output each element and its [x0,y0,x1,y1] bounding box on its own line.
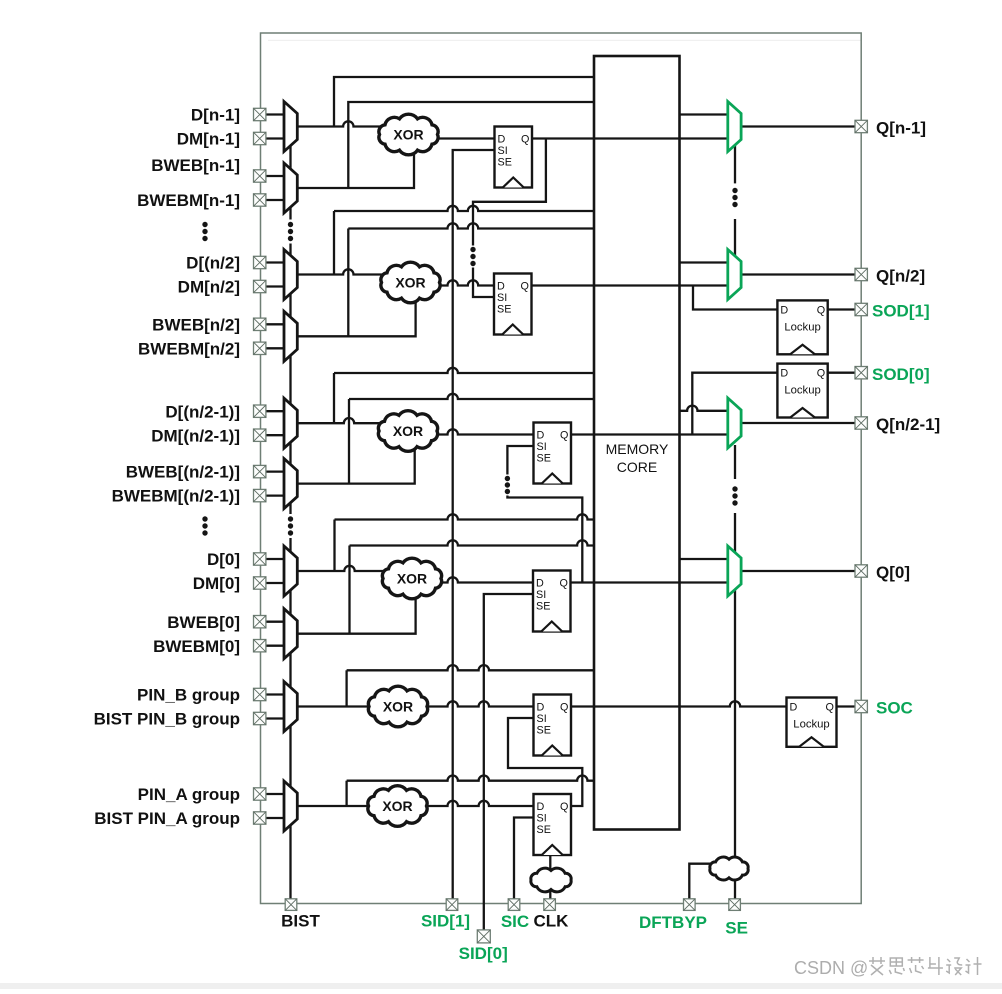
wire pin DM[n-1] to mux [266,137,285,139]
wire pin BWEBM[n/2] to mux [266,347,285,349]
pin CLK [544,899,556,911]
svg-text:PIN_B group: PIN_B group [137,686,240,705]
svg-text:DM[(n/2-1)]: DM[(n/2-1)] [151,426,240,445]
svg-text:BWEBM[n-1]: BWEBM[n-1] [137,191,240,210]
wire feedback row1 line1 [334,77,594,127]
svg-text:SE: SE [497,304,511,316]
wire scan FF4 Q to FF3 SI upper [507,446,533,475]
wire pin D[(n/2-1)] to mux [266,410,285,412]
mux PIN_B [284,682,297,732]
svg-text:Q: Q [560,578,568,590]
XOR cloud row1 [379,114,438,155]
pin SIC [508,899,520,911]
wire FF6 Q to FF5 SI loop [508,718,582,806]
svg-text:SI: SI [537,441,547,453]
pin SOC [855,700,867,712]
svg-text:Q: Q [817,368,825,380]
wire feedback row2 line2 vert [347,229,349,337]
output mux Q[n/2] [728,250,741,300]
svg-text:Q[0]: Q[0] [876,563,910,582]
output mux Q[n-1] [728,102,741,152]
wire mux BWEB[n/2] out to XOR2 bottom [297,288,415,336]
wire pin BIST PIN_A group to mux [266,817,285,819]
svg-text:XOR: XOR [395,274,425,290]
wire pin PIN_A group to mux [266,793,285,795]
wire pin BWEB[n/2] to mux [266,323,285,325]
svg-text:DM[0]: DM[0] [193,574,240,593]
svg-text:SI: SI [536,589,546,601]
wire mux D[n/2] out to XOR2 [297,269,402,274]
pin BWEB[n/2] [254,318,266,330]
ellipsis select mux1-mux2 [732,188,737,193]
ellipsis scan chain FF1-FF2 [470,247,475,252]
XOR cloud row4 [382,558,441,599]
CLK buffer cloud [531,868,571,892]
svg-text:SOC: SOC [876,699,913,718]
wire feedback row1 line2 [348,102,594,188]
wire pin D[0] to mux [266,558,285,560]
wire XOR3 to FF3 D [417,429,534,434]
svg-text:Q: Q [817,304,825,316]
wire feedback PIN_A [347,775,594,780]
wire XOR2 to FF2 D [419,280,494,285]
wire SOD[0] lockup D branch [692,373,777,435]
wire pin BWEBM[(n/2-1)] to mux [266,494,285,496]
lockup latch SOC [787,698,837,747]
wire DFTBYP to cloud [689,864,725,899]
svg-text:BWEB[0]: BWEB[0] [167,613,240,632]
ellipsis BIST line group1-2 [288,222,293,227]
ellipsis BIST line group3-4 [288,516,293,521]
wire BIST select bus seg2 [289,244,291,515]
wire Q[0] mux out to pin [741,570,855,572]
lockup latch SOD[0] [777,364,827,418]
wire SOC lockup Q to pin [837,705,856,707]
svg-text:Q[n-1]: Q[n-1] [876,119,926,138]
XOR cloud PIN_B [368,686,427,727]
svg-text:BWEB[n-1]: BWEB[n-1] [151,156,240,175]
svg-text:D: D [537,702,545,714]
ellipsis select mux3-mux4 [732,486,737,491]
wire SE select tail segC [734,445,736,479]
wire pin DM[0] to mux [266,582,285,584]
wire XORB to FF5 D [406,701,534,706]
pin Q[0] [855,565,867,577]
pin BWEBM[n/2] [254,342,266,354]
XOR cloud row2 [381,262,440,303]
svg-text:XOR: XOR [397,570,427,586]
svg-text:D[0]: D[0] [207,550,240,569]
mux D[0] [284,546,297,596]
scan flip-flop U3 (D[n/2-1]) [534,423,572,484]
wire core out to Q[0] mux [680,558,728,560]
svg-text:SIC: SIC [501,912,529,931]
svg-text:BWEB[n/2]: BWEB[n/2] [152,315,240,334]
wire FF5 Q to SOC lockup [571,701,787,706]
wire scan FF1 Q to FF2 SI lower [473,268,494,298]
svg-text:Q: Q [826,702,834,714]
pin Q[n/2] [855,268,867,280]
svg-text:D: D [536,578,544,590]
svg-text:Q[n/2-1]: Q[n/2-1] [876,415,940,434]
mux BWEB[n/2-1] [284,459,297,509]
mux D[n/2-1] [284,398,297,448]
mux PIN_A [284,781,297,831]
svg-text:SE: SE [536,601,550,613]
wire FF2 Q bypass to Q[n/2] mux [532,284,728,286]
pin BWEBM[(n/2-1)] [254,489,266,501]
svg-text:SE: SE [537,725,551,737]
svg-text:D: D [780,304,788,316]
svg-text:CORE: CORE [617,459,657,475]
ellipsis labels group3-4 [202,516,207,521]
pin BIST PIN_B group [254,712,266,724]
scan flip-flop U5 (PIN_B) [534,695,572,756]
faint artifact line [268,40,861,41]
wire pin BWEB[0] to mux [266,621,285,623]
wire Q[n/2-1] mux out to pin [741,422,855,424]
svg-text:Q[n/2]: Q[n/2] [876,267,925,286]
svg-text:D: D [780,368,788,380]
wire BIST select bus seg3 [289,538,291,899]
scan flip-flop U4 (D[0]) [533,571,571,632]
pin BWEB[(n/2-1)] [254,465,266,477]
wire SOD[1] lockup D branch [693,286,777,310]
wire SE select tail segD [734,513,736,555]
pin BWEB[0] [254,616,266,628]
svg-text:Q: Q [521,134,529,146]
wire SID[1] bus to FF1 SI [453,150,495,899]
svg-text:SOD[1]: SOD[1] [872,302,930,321]
svg-text:BIST PIN_A group: BIST PIN_A group [94,809,240,828]
pin BIST PIN_A group [254,812,266,824]
svg-text:BWEB[(n/2-1)]: BWEB[(n/2-1)] [126,463,240,482]
wire feedback row3 line1 vert [333,373,335,423]
wire feedback PIN_A vert [345,781,347,806]
wire feedback row4 line2 [350,540,595,545]
wire BIST select bus seg1 [289,146,291,220]
wire scan FF1 Q to FF2 SI upper [473,139,546,246]
pin SID[0] [477,930,490,943]
wire feedback row2 line2 [348,223,594,228]
svg-text:XOR: XOR [383,698,413,714]
pin PIN_A group [254,788,266,800]
lockup latch SOD[1] [777,300,827,354]
svg-text:CLK: CLK [534,912,570,931]
wire feedback row4 line2 vert [348,546,350,634]
wire SE select to cloud [734,588,736,899]
wire core out to Q[n-1] mux [680,113,728,115]
wire mux BWEB[0] out to XOR4 bottom [297,584,415,634]
wire pin BIST PIN_B group to mux [266,717,285,719]
svg-text:XOR: XOR [393,126,423,142]
pin SE [729,899,741,911]
wire pin BWEBM[n-1] to mux [266,199,285,201]
svg-text:Q: Q [521,281,529,293]
wire pin DM[n/2] to mux [266,285,285,287]
svg-text:D: D [790,702,798,714]
svg-text:SI: SI [537,713,547,725]
wire Q[n/2] mux out to pin [741,273,855,275]
pin PIN_B group [254,688,266,700]
svg-text:DFTBYP: DFTBYP [639,913,707,932]
svg-text:Lockup: Lockup [784,321,820,333]
wire XOR1 to FF1 D [417,137,495,139]
svg-text:MEMORY: MEMORY [606,441,669,457]
wire scan FF4 Q to FF3 SI lower [507,496,582,583]
XOR cloud row3 [378,411,437,452]
wire pin BWEB[n-1] to mux [266,175,285,177]
scan flip-flop U1 (D[n-1]) [495,127,533,188]
svg-text:BIST: BIST [281,911,320,930]
wire Q[n-1] mux out to pin [741,125,855,127]
svg-text:DM[n-1]: DM[n-1] [177,130,240,149]
wire mux PIN_A out to XORA [297,805,390,807]
svg-text:SE: SE [537,453,551,465]
ellipsis labels group1-2 [202,222,207,227]
wire FF4 Q bypass to Q[0] mux [571,581,728,583]
svg-text:XOR: XOR [393,423,423,439]
output mux Q[0] [728,546,741,596]
wire SOD[1] lockup Q to pin [828,308,855,310]
wire pin D[(n/2] to mux [266,261,285,263]
pin D[(n/2] [254,256,266,268]
svg-text:BWEBM[n/2]: BWEBM[n/2] [138,339,240,358]
pin DM[n/2] [254,280,266,292]
svg-text:SE: SE [498,157,512,169]
wire mux D[0] out to XOR4 [297,566,404,571]
wire feedback row3 line1 [334,368,594,373]
svg-text:PIN_A group: PIN_A group [138,785,240,804]
wire XORA to FF6 D [406,801,534,806]
pin DM[(n/2-1)] [254,429,266,441]
wire feedback row4 line1 vert [333,520,335,572]
pin SOD[1] [855,303,867,315]
svg-text:D[(n/2-1)]: D[(n/2-1)] [165,402,240,421]
wire core out to Q[n/2-1] mux [680,406,728,411]
wire FF3 Q bypass to Q[n/2-1] mux [571,433,728,435]
mux BWEB[0] [284,609,297,659]
pin D[(n/2-1)] [254,405,266,417]
wire feedback PIN_B vert [345,670,347,706]
svg-text:SI: SI [497,292,507,304]
svg-text:BIST PIN_B group: BIST PIN_B group [94,710,240,729]
wire pin BWEB[(n/2-1)] to mux [266,470,285,472]
pin BWEBM[0] [254,640,266,652]
wire pin D[n-1] to mux [266,113,285,115]
scan flip-flop U6 (PIN_A) [534,794,572,855]
wire feedback row4 line1 [335,514,595,519]
mux BWEB[n-1] [284,163,297,213]
pin Q[n/2-1] [855,417,867,429]
ellipsis scan chain FF4-FF3 [505,476,510,481]
pin DM[0] [254,577,266,589]
wire mux PIN_B out to XORB [297,705,390,707]
svg-text:D[(n/2]: D[(n/2] [186,254,240,273]
svg-text:DM[n/2]: DM[n/2] [178,278,240,297]
svg-text:SE: SE [725,919,748,938]
wire SID[0] bus to FF4 SI [484,594,533,930]
svg-text:Q: Q [560,430,568,442]
svg-text:SID[1]: SID[1] [421,911,470,930]
svg-text:Q: Q [560,801,568,813]
wire SE select tail segB [734,219,736,260]
wire SIC to FF6 SI [514,818,534,899]
pin SOD[0] [855,367,867,379]
pin DFTBYP [684,899,696,911]
pin BIST [285,899,297,911]
svg-text:CSDN @: CSDN @ [794,958,868,978]
mux D[n/2] [284,250,297,300]
wire pin PIN_B group to mux [266,693,285,695]
wire CLK to FF6 clock [549,855,551,899]
svg-text:SOD[0]: SOD[0] [872,365,930,384]
pin Q[n-1] [855,120,867,132]
wire feedback PIN_B [347,665,594,670]
wire mux D[n-1] out to XOR1 [297,121,400,126]
pin SID[1] [446,899,458,911]
pin DM[n-1] [254,132,266,144]
svg-text:SID[0]: SID[0] [459,944,508,963]
wire pin DM[(n/2-1)] to mux [266,434,285,436]
pin BWEBM[n-1] [254,194,266,206]
svg-text:SE: SE [537,824,551,836]
mux BWEB[n/2] [284,311,297,361]
wire feedback row2 line1 vert [333,211,335,275]
SE buffer cloud [710,857,748,880]
wire mux BWEB[n-1] out to XOR1 bottom [297,140,414,188]
module boundary border [261,33,862,904]
svg-text:D[n-1]: D[n-1] [191,106,240,125]
wire feedback row3 line2 [349,394,594,399]
memory core box [594,56,680,830]
svg-text:BWEBM[0]: BWEBM[0] [153,637,240,656]
svg-text:Q: Q [560,702,568,714]
output mux Q[n/2-1] [728,398,741,448]
svg-text:D: D [537,801,545,813]
wire XOR4 to FF4 D [421,577,534,582]
svg-text:Lockup: Lockup [784,385,820,397]
svg-text:Lockup: Lockup [793,719,829,731]
wire FF1 Q bypass to Q[n-1] mux [532,137,728,139]
wire SE select tail segA [734,143,736,183]
pin BWEB[n-1] [254,170,266,182]
pin D[n-1] [254,108,266,120]
svg-text:XOR: XOR [382,798,412,814]
wire SOD[0] lockup Q to pin [828,372,855,374]
mux D[n-1] [284,102,297,152]
svg-text:D: D [537,430,545,442]
wire pin BWEBM[0] to mux [266,645,285,647]
XOR cloud PIN_A [368,786,427,827]
wire mux BWEB[n/2-1] out to XOR3 bottom [297,437,414,484]
svg-text:D: D [497,281,505,293]
wire core out to Q[n/2] mux [680,261,728,263]
svg-text:BWEBM[(n/2-1)]: BWEBM[(n/2-1)] [112,487,240,506]
svg-text:SI: SI [537,813,547,825]
svg-text:D: D [498,134,506,146]
scan flip-flop U2 (D[n/2]) [494,274,532,335]
wire feedback row3 line2 vert [348,399,350,484]
pin D[0] [254,553,266,565]
wire mux D[n/2-1] out to XOR3 [297,418,400,423]
bottom gray band [0,983,1002,989]
svg-text:SI: SI [498,145,508,157]
wire feedback row2 line1 [334,206,594,211]
